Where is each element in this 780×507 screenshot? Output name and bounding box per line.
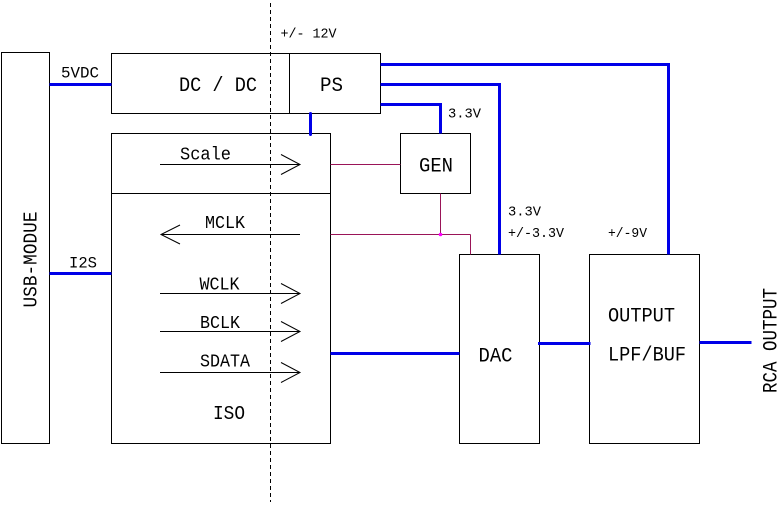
wire PS to OUTPUT +/-12V (blue) — [381, 65, 669, 255]
block ISO — [112, 194, 331, 444]
svg-text:Scale: Scale — [180, 146, 231, 166]
wire I2S (blue) — [50, 272, 112, 275]
svg-text:5VDC: 5VDC — [61, 65, 99, 83]
block Scale — [112, 134, 331, 194]
svg-text:DAC: DAC — [479, 346, 513, 369]
wire DAC to OUTPUT (blue) — [538, 342, 591, 345]
wire PS to GEN 3.3V (blue) — [381, 105, 441, 134]
junction dot — [439, 233, 443, 237]
wire PS to Scale (blue stub) — [309, 114, 312, 135]
wire MCLK to DAC (purple) — [470, 235, 472, 255]
svg-text:I2S: I2S — [69, 255, 97, 273]
svg-text:+/- 12V: +/- 12V — [281, 27, 338, 43]
block GEN — [401, 134, 471, 194]
arrow BCLK (right) — [160, 322, 300, 342]
svg-text:MCLK: MCLK — [205, 214, 245, 234]
arrow Scale (right) — [160, 155, 300, 175]
wire MCLK bus (purple) — [331, 234, 471, 236]
dashed isolation boundary — [270, 3, 272, 502]
svg-text:PS: PS — [320, 75, 343, 98]
wire GEN bottom stub (purple) — [440, 194, 442, 235]
svg-text:ISO: ISO — [213, 403, 245, 425]
svg-text:3.3V: 3.3V — [508, 205, 542, 221]
block DC / DC + PS — [112, 54, 381, 114]
svg-text:+/-9V: +/-9V — [608, 226, 648, 242]
svg-text:USB-MODUE: USB-MODUE — [21, 212, 43, 308]
block USB-MODUE — [2, 53, 50, 444]
wire 5VDC (blue) — [50, 83, 112, 86]
svg-text:SDATA: SDATA — [200, 353, 250, 373]
svg-text:GEN: GEN — [419, 156, 453, 179]
block OUTPUT LPF/BUF — [590, 255, 700, 444]
svg-text:RCA OUTPUT: RCA OUTPUT — [761, 288, 780, 393]
svg-text:DC / DC: DC / DC — [179, 75, 257, 98]
svg-text:3.3V: 3.3V — [448, 107, 482, 123]
wire Scale to GEN (purple) — [331, 164, 401, 166]
arrow MCLK (left) — [161, 225, 300, 244]
arrow WCLK (right) — [160, 284, 300, 304]
divider between DC/DC and PS — [289, 54, 291, 114]
svg-text:LPF/BUF: LPF/BUF — [608, 345, 686, 368]
wire ISO to DAC (blue) — [331, 352, 460, 355]
wire OUTPUT to RCA (blue) — [700, 341, 752, 344]
wire PS to DAC (blue) — [381, 85, 500, 255]
svg-text:+/-3.3V: +/-3.3V — [508, 226, 565, 242]
svg-text:WCLK: WCLK — [200, 276, 240, 296]
block DAC — [460, 255, 540, 444]
svg-text:OUTPUT: OUTPUT — [608, 306, 675, 329]
arrow SDATA (right) — [160, 363, 300, 383]
